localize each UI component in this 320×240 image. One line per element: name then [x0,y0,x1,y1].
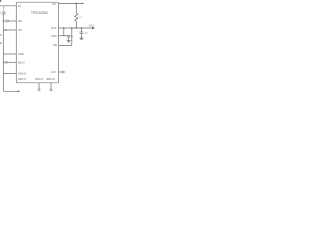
svg-text:SNS: SNS [51,34,57,38]
svg-text:IN: IN [18,4,21,8]
svg-text:50mV: 50mV [18,60,25,64]
svg-text:PG: PG [52,2,56,6]
svg-text:OUT: OUT [51,26,57,30]
svg-text:GND: GND [18,52,24,56]
svg-text:1.6V: 1.6V [50,70,56,74]
svg-text:FB: FB [53,43,57,47]
svg-text:200mV: 200mV [18,77,27,81]
svg-text:800mV: 800mV [47,77,56,81]
svg-text:EN: EN [18,19,22,23]
svg-text:1.8 V: 1.8 V [89,24,95,28]
svg-text:SS: SS [18,28,22,32]
svg-text:TPS7A7200: TPS7A7200 [31,11,48,15]
svg-text:100mV: 100mV [18,72,27,76]
svg-text:400mV: 400mV [35,77,44,81]
svg-text:C: C [0,11,2,15]
